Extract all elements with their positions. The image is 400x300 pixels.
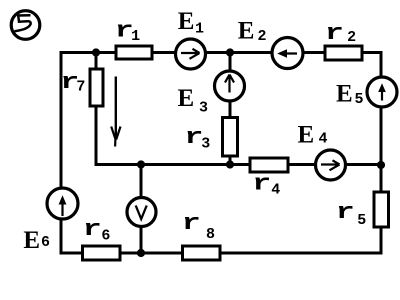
svg-text:r: r — [336, 200, 355, 225]
svg-text:r: r — [83, 217, 102, 242]
svg-text:4: 4 — [319, 131, 328, 148]
svg-text:6: 6 — [101, 228, 110, 245]
svg-text:3: 3 — [201, 135, 210, 152]
svg-text:r: r — [252, 171, 271, 196]
svg-text:5: 5 — [357, 212, 366, 229]
svg-text:E: E — [23, 227, 40, 254]
svg-text:E: E — [238, 18, 255, 45]
svg-text:6: 6 — [41, 234, 50, 251]
svg-text:4: 4 — [271, 182, 280, 199]
svg-text:E: E — [178, 8, 195, 35]
svg-text:2: 2 — [347, 29, 356, 46]
svg-text:8: 8 — [206, 226, 215, 243]
svg-text:E: E — [298, 122, 315, 149]
svg-text:E: E — [336, 81, 353, 108]
svg-text:E: E — [178, 85, 195, 112]
svg-text:5: 5 — [355, 91, 364, 108]
svg-text:1: 1 — [195, 20, 204, 37]
svg-text:3: 3 — [199, 99, 208, 116]
svg-text:1: 1 — [131, 28, 140, 45]
svg-text:2: 2 — [258, 28, 267, 45]
svg-text:r: r — [325, 21, 344, 46]
svg-text:r: r — [182, 211, 201, 236]
svg-text:7: 7 — [76, 78, 85, 95]
